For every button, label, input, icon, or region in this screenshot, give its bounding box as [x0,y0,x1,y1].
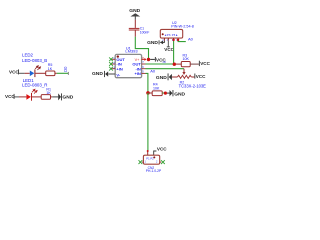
svg-text:10K: 10K [183,57,190,61]
svg-text:LED-0803_B: LED-0803_B [22,58,47,63]
svg-text:D0: D0 [163,60,167,64]
svg-text:A0: A0 [188,37,194,42]
svg-text:1K: 1K [46,91,51,95]
svg-text:100nF: 100nF [140,31,150,35]
svg-text:V-: V- [116,73,120,78]
svg-text:LM393: LM393 [125,49,138,54]
svg-text:PIN-W-2.54-8: PIN-W-2.54-8 [171,24,193,28]
svg-text:A0: A0 [150,69,156,74]
svg-text:GND: GND [156,75,167,81]
svg-text:10K: 10K [153,87,160,91]
svg-text:GND: GND [92,71,103,77]
svg-text:+IN: +IN [134,71,140,76]
svg-text:VCC: VCC [157,147,167,152]
svg-text:VCC: VCC [200,61,210,66]
svg-text:GND: GND [62,95,73,101]
svg-text:LED2: LED2 [22,53,34,58]
svg-text:D0: D0 [63,66,68,72]
svg-text:GND: GND [147,40,158,46]
svg-text:+IN: +IN [116,66,122,71]
svg-text:◄P6 P5►: ◄P6 P5► [164,33,178,37]
svg-text:VCC: VCC [9,69,19,74]
svg-text:GND: GND [129,8,140,14]
svg-text:1K: 1K [48,67,53,71]
svg-text:GND: GND [174,91,185,97]
svg-text:P1 P2: P1 P2 [146,156,154,160]
svg-text:LED-0803_R: LED-0803_R [22,83,47,88]
svg-text:VCC: VCC [196,74,206,79]
svg-text:TC33X-2-103E: TC33X-2-103E [179,83,207,88]
svg-text:PH-1.0-2P: PH-1.0-2P [146,169,162,173]
